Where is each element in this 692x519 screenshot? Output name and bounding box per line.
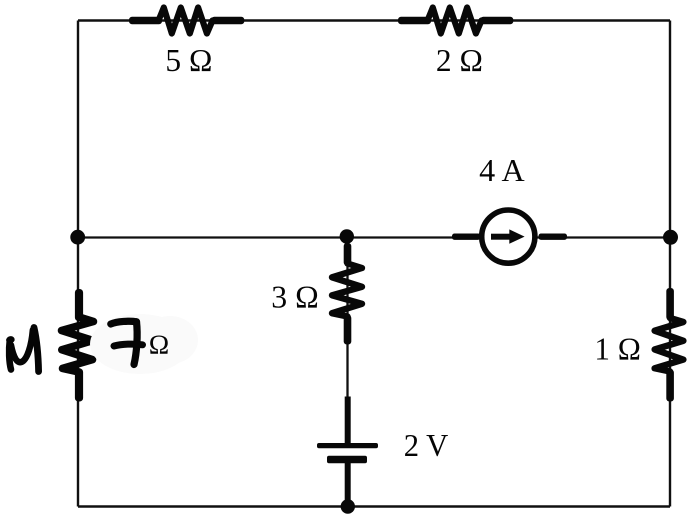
node D: bottom middle junction bbox=[341, 499, 355, 513]
wire: top horizontal bbox=[78, 19, 670, 21]
svg-text:2 V: 2 V bbox=[404, 428, 449, 463]
wire: bottom horizontal bbox=[78, 505, 670, 507]
handwritten 7 annotation bbox=[111, 321, 143, 364]
resistor R4 3ohm bbox=[332, 244, 362, 345]
current source I1 4A bbox=[452, 210, 567, 263]
resistor R5 1ohm bbox=[655, 289, 684, 402]
node B: center middle junction bbox=[340, 229, 354, 243]
resistor R3 7ohm (hand drawn) bbox=[62, 290, 94, 402]
node C: right middle junction bbox=[663, 230, 678, 245]
wire: left vertical branch bbox=[77, 21, 79, 507]
battery V1 2V bbox=[317, 397, 378, 508]
wire: middle vertical branch bbox=[346, 238, 348, 446]
svg-text:3 Ω: 3 Ω bbox=[271, 280, 319, 315]
svg-text:1 Ω: 1 Ω bbox=[594, 331, 641, 366]
wire: right vertical branch bbox=[669, 21, 671, 507]
svg-text:Ω: Ω bbox=[149, 328, 169, 359]
resistor R1 5ohm bbox=[130, 8, 244, 34]
resistor R2 2ohm bbox=[399, 8, 513, 34]
wire: middle horizontal bbox=[78, 236, 670, 238]
node A: left middle junction bbox=[70, 230, 85, 245]
handwritten M annotation bbox=[5, 328, 38, 372]
faint eraser wash behind 7 ohm label bbox=[90, 314, 190, 374]
svg-text:5 Ω: 5 Ω bbox=[165, 43, 212, 78]
svg-text:2 Ω: 2 Ω bbox=[436, 43, 483, 78]
svg-text:4 A: 4 A bbox=[479, 153, 525, 188]
